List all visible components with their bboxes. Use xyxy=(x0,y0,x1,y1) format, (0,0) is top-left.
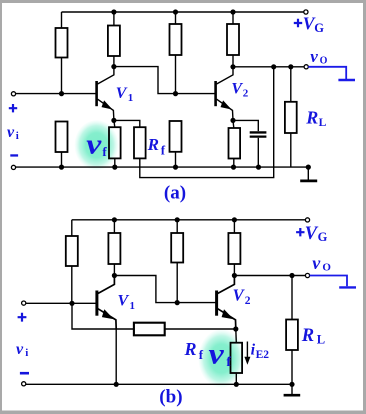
svg-text:E2: E2 xyxy=(256,349,270,361)
label V2 (b) xyxy=(233,286,251,308)
label v_f (a) xyxy=(86,129,107,161)
node top rail dot 1 (a) xyxy=(111,9,116,14)
transistor V2 (b) xyxy=(217,276,236,330)
node rail dot 1 (b) xyxy=(114,382,119,387)
label V1 (b) xyxy=(118,293,136,313)
resistor RL (a) xyxy=(285,67,297,167)
resistor v_f emitter (a) xyxy=(109,120,121,167)
node rail dot ground (b) xyxy=(289,382,294,387)
resistor v_f emitter (b) xyxy=(231,329,243,384)
wire bottom rail (a) xyxy=(16,166,309,168)
ground (b) xyxy=(284,384,301,395)
glow highlight around v_f (b) xyxy=(199,330,245,388)
svg-text:v: v xyxy=(86,129,102,161)
node top rail dot 3 (b) xyxy=(232,217,237,222)
label v_i (b) xyxy=(16,341,28,359)
terminal input + (b) xyxy=(22,301,26,305)
transistor V2 (a) xyxy=(216,67,233,121)
node rail dot 2 (a) xyxy=(112,165,117,170)
node V2 collector (a) xyxy=(230,64,235,69)
node rail dot 2 (b) xyxy=(234,382,239,387)
svg-text:R: R xyxy=(305,107,318,127)
resistor R1 top (a) xyxy=(56,12,68,94)
label i_E2 (b) xyxy=(251,342,270,362)
node bias junction V2 base (b) xyxy=(175,300,180,305)
node RL top (a) xyxy=(288,64,293,69)
svg-text:R: R xyxy=(184,339,197,359)
resistor RE2 (a) xyxy=(229,120,241,167)
svg-text:L: L xyxy=(319,117,327,129)
label v_f (b) xyxy=(209,337,232,370)
svg-text:(a): (a) xyxy=(164,183,186,204)
ground reference vO (b) xyxy=(339,286,356,288)
terminal input - (a) xyxy=(11,165,15,169)
svg-text:v: v xyxy=(209,337,225,370)
wire base-side to Rf (b) xyxy=(72,303,134,329)
node V2 emitter (a) xyxy=(230,118,235,123)
node V1 collector (a) xyxy=(111,64,116,69)
svg-text:2: 2 xyxy=(245,295,251,307)
wire bottom rail (b) xyxy=(26,383,292,385)
svg-text:R: R xyxy=(147,135,159,154)
label vO (b) xyxy=(312,253,331,273)
svg-text:(b): (b) xyxy=(159,386,182,407)
node top rail dot 3 (a) xyxy=(230,9,235,14)
label RL (b) xyxy=(301,326,325,347)
resistor R1 (b) xyxy=(66,220,78,303)
node top rail dot 1 (b) xyxy=(112,217,117,222)
svg-text:i: i xyxy=(25,347,28,359)
resistor R5 lower-left bias (a) xyxy=(56,122,68,168)
label - input (b) xyxy=(20,372,29,375)
svg-text:R: R xyxy=(301,326,314,346)
glow highlight around v_f (a) xyxy=(75,120,119,170)
wire input to base V1 (a) xyxy=(16,93,96,95)
node rail dot ground (a) xyxy=(306,165,311,170)
label Rf (a) xyxy=(147,135,166,157)
node feedback tap (a) xyxy=(271,64,276,69)
node input bias junction (b) xyxy=(69,301,74,306)
svg-text:V: V xyxy=(231,81,243,98)
terminal input + (a) xyxy=(11,92,15,96)
wire Rf feedback to output (a) xyxy=(140,67,274,178)
wire top supply rail (a) xyxy=(62,11,305,13)
node input bias junction (a) xyxy=(59,91,64,96)
terminal input - (b) xyxy=(22,382,26,386)
svg-text:L: L xyxy=(317,333,325,347)
resistor R2 (b) xyxy=(108,220,120,276)
wire top supply rail (b) xyxy=(72,219,306,221)
svg-text:G: G xyxy=(314,21,324,35)
svg-text:1: 1 xyxy=(130,300,136,312)
svg-text:V: V xyxy=(116,85,128,102)
wire V1 collector to V2 base (b) xyxy=(114,276,216,303)
current arrow i_E2 (b) xyxy=(244,342,250,365)
node bias junction V2 base (a) xyxy=(173,91,178,96)
wire vO blue stub (b) xyxy=(310,276,347,287)
resistor R3 (b) xyxy=(171,220,183,303)
node rail dot 4 (a) xyxy=(231,165,236,170)
node rail dot 1 (a) xyxy=(59,165,64,170)
node V1 collector (b) xyxy=(112,273,117,278)
terminal vO (a) xyxy=(304,65,308,69)
wire input to base V1 (b) xyxy=(26,302,96,304)
svg-text:i: i xyxy=(16,130,19,142)
wire output (b) xyxy=(234,275,305,277)
label vO (a) xyxy=(310,47,327,67)
wire emitter to Rf (a) xyxy=(114,120,140,127)
label + input (b) xyxy=(18,313,27,322)
wire V1 emitter down to rail (b) xyxy=(115,329,117,384)
resistor R4 top (a) xyxy=(227,12,239,67)
resistor R4 (b) xyxy=(228,220,240,276)
svg-text:1: 1 xyxy=(128,92,134,104)
wire vO blue stub (a) xyxy=(308,67,346,79)
node rail dot 3 (a) xyxy=(173,165,178,170)
label +VG (a) xyxy=(294,14,325,36)
label +VG (b) xyxy=(296,224,328,244)
svg-text:f: f xyxy=(199,347,204,362)
ground (a) xyxy=(300,167,317,181)
svg-text:O: O xyxy=(322,262,331,274)
svg-text:O: O xyxy=(320,56,328,67)
svg-text:v: v xyxy=(312,253,321,273)
resistor R6 lower bias (a) xyxy=(170,121,182,167)
resistor Rf horizontal (b) xyxy=(134,323,165,336)
node rail dot 5 (a) xyxy=(256,165,261,170)
label V2 (a) xyxy=(231,81,248,100)
node top rail dot 2 (a) xyxy=(173,9,178,14)
resistor R2 top (a) xyxy=(108,12,120,67)
node V2 emitter (b) xyxy=(233,326,238,331)
svg-text:V: V xyxy=(118,293,130,310)
wire output (a) xyxy=(233,66,304,68)
label V1 (a) xyxy=(116,85,134,104)
resistor Rf (a) xyxy=(134,127,146,158)
svg-text:f: f xyxy=(226,354,231,369)
node V1 emitter (a) xyxy=(111,118,116,123)
svg-text:v: v xyxy=(16,341,24,358)
node top rail dot 2 (b) xyxy=(175,217,180,222)
svg-text:2: 2 xyxy=(243,88,249,100)
wire Rf to V2 emitter (b) xyxy=(165,328,236,330)
label + input (a) xyxy=(9,104,17,112)
label - input (a) xyxy=(10,154,18,156)
wire V1 collector to V2 base (a) xyxy=(114,67,215,94)
resistor R3 top (a) xyxy=(170,12,182,94)
svg-text:f: f xyxy=(102,144,107,159)
terminal +VG (a) xyxy=(304,10,308,14)
terminal +VG (b) xyxy=(305,218,309,222)
transistor V1 (b) xyxy=(97,276,116,330)
capacitor CE (a) xyxy=(233,120,266,167)
svg-text:G: G xyxy=(318,230,328,244)
label Rf (b) xyxy=(184,339,204,362)
resistor RL (b) xyxy=(286,276,298,385)
label RL (a) xyxy=(305,107,326,129)
node V2 collector (b) xyxy=(232,273,237,278)
node RL top (b) xyxy=(289,273,294,278)
transistor V1 (a) xyxy=(97,67,114,121)
svg-text:v: v xyxy=(7,124,15,141)
svg-text:v: v xyxy=(310,47,318,66)
label v_i (a) xyxy=(7,124,19,142)
ground reference vO (a) xyxy=(338,79,355,81)
terminal vO (b) xyxy=(305,273,309,277)
svg-text:f: f xyxy=(161,142,166,157)
